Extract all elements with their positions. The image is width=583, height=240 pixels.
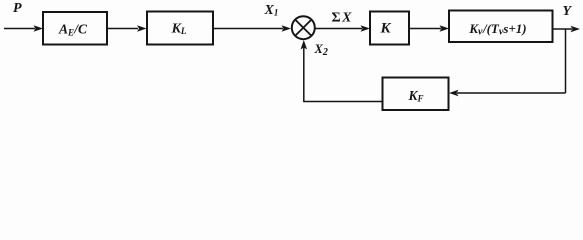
svg-text:X2: X2	[314, 42, 328, 58]
svg-text:ΣX: ΣX	[332, 10, 353, 25]
svg-text:Kv/(Tvs+1): Kv/(Tvs+1)	[468, 21, 526, 38]
svg-text:X1: X1	[264, 3, 279, 18]
svg-text:Y: Y	[563, 4, 573, 19]
svg-text:K: K	[379, 21, 391, 37]
svg-text:P: P	[13, 1, 22, 16]
